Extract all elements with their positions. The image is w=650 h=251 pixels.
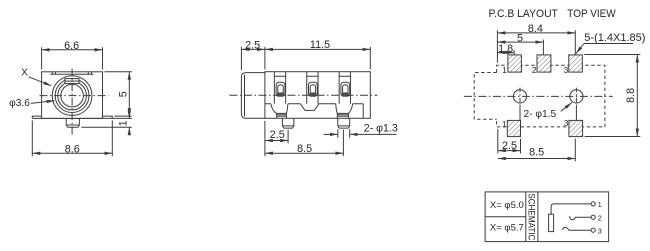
pad 2 [532, 55, 551, 75]
table inner lines [485, 192, 538, 242]
hole right [570, 88, 583, 121]
svg-text:2: 2 [532, 65, 537, 75]
collar 1 [277, 113, 287, 118]
centerline [230, 94, 378, 96]
contact 3 slot [339, 72, 350, 104]
svg-text:8.5: 8.5 [297, 143, 312, 155]
svg-text:5: 5 [517, 32, 523, 44]
contact 2 slot [307, 72, 318, 104]
dimension 2.5 bottom [265, 121, 288, 156]
svg-text:2- φ1.5: 2- φ1.5 [524, 109, 557, 120]
svg-text:8.5: 8.5 [529, 146, 544, 158]
left base tab [32, 116, 41, 118]
pcb centerline [464, 95, 613, 97]
contact 1 slot [274, 72, 285, 104]
sleeve bar [549, 214, 554, 231]
dimension 8.5 middle [265, 130, 344, 156]
svg-text:SCHEMATIC: SCHEMATIC [527, 193, 538, 240]
svg-text:P.C.B LAYOUT: P.C.B LAYOUT [489, 8, 559, 20]
barrel end line [244, 75, 246, 117]
dimension 6.6 [42, 40, 103, 70]
centerline horizontal [40, 95, 109, 97]
pad B1 [502, 119, 521, 137]
dimension 8.5 pcb [498, 139, 576, 162]
center bottom tab [66, 118, 79, 127]
centerline vertical [71, 69, 73, 135]
funnel 1 [271, 104, 288, 114]
wire pin1 to sleeve [551, 204, 591, 214]
pin 3 [591, 226, 602, 235]
foot pad 3 [338, 118, 350, 128]
pin 2 [591, 213, 602, 222]
svg-text:2- φ1.3: 2- φ1.3 [364, 123, 398, 135]
svg-text:3: 3 [598, 226, 602, 235]
contact 2 [309, 82, 318, 96]
svg-text:11.5: 11.5 [310, 39, 330, 51]
dimension 1.8 [497, 43, 514, 55]
svg-text:1: 1 [598, 200, 602, 209]
svg-text:φ3.6: φ3.6 [9, 98, 30, 109]
svg-text:2.5: 2.5 [270, 129, 285, 141]
svg-text:X= φ5.7: X= φ5.7 [490, 223, 524, 234]
svg-text:X= φ5.0: X= φ5.0 [490, 200, 524, 211]
dimension 2.5 top [241, 39, 265, 70]
dashed body outline [497, 65, 605, 127]
cavity shelf line [265, 103, 363, 105]
base bottom line [32, 117, 132, 119]
dimension 1 [81, 112, 131, 134]
body [265, 72, 370, 119]
svg-text:1: 1 [502, 65, 507, 75]
dimension 8.8 [584, 55, 640, 137]
bushing chord line [51, 72, 94, 74]
label X leader [21, 67, 51, 85]
svg-text:2: 2 [598, 213, 602, 222]
svg-text:1.8: 1.8 [498, 43, 513, 55]
foot pad 1 [282, 118, 294, 128]
wire pin2 spring [570, 216, 592, 220]
svg-text:3: 3 [564, 65, 569, 75]
contact 3 [341, 82, 350, 96]
svg-text:TOP VIEW: TOP VIEW [567, 8, 616, 20]
barrel [241, 73, 265, 119]
svg-text:X: X [21, 67, 28, 78]
outer circle [52, 76, 92, 116]
svg-text:8.6: 8.6 [65, 143, 80, 155]
svg-text:6.6: 6.6 [64, 40, 79, 52]
dashed barrel outline [474, 73, 496, 120]
svg-text:8.8: 8.8 [625, 88, 637, 103]
funnel 3 [336, 104, 353, 114]
svg-text:5-(1.4X1.85): 5-(1.4X1.85) [584, 32, 645, 44]
pad 1 [502, 55, 521, 75]
dimension 2-phi1.3 [324, 123, 398, 138]
dimension 8.6 [32, 120, 112, 156]
ring circle 2 [55, 79, 89, 113]
dimension 2.5 pcb [498, 129, 521, 154]
svg-text:2.5: 2.5 [502, 140, 517, 152]
middle block [300, 104, 319, 111]
collar 3 [337, 113, 348, 118]
dimension 5 [105, 72, 132, 116]
contact 1 [276, 82, 285, 96]
right step [362, 104, 364, 119]
pad B3 [564, 118, 583, 137]
label 2-phi1.5 [524, 103, 572, 121]
body [42, 72, 103, 119]
hole left [513, 88, 526, 121]
svg-text:1: 1 [502, 119, 507, 129]
svg-text:1: 1 [118, 120, 130, 126]
dimension 11.5 [265, 39, 370, 69]
pad 3 [564, 55, 583, 75]
svg-text:3: 3 [564, 118, 569, 128]
dimension 5 [497, 32, 543, 54]
label phi3.6 leader [9, 98, 54, 109]
dimension 8.4 [497, 23, 575, 63]
right base tab [103, 116, 113, 118]
label 5-(1.4X1.85) [576, 32, 645, 53]
table frame [485, 192, 608, 242]
wire pin3 spring [562, 227, 591, 230]
index notch [65, 79, 79, 84]
svg-text:8.4: 8.4 [528, 23, 543, 35]
ring circle 3 [58, 81, 87, 110]
svg-text:5: 5 [117, 91, 129, 97]
svg-text:2.5: 2.5 [245, 39, 260, 51]
inner circle [61, 84, 84, 107]
pin 1 [591, 200, 602, 209]
